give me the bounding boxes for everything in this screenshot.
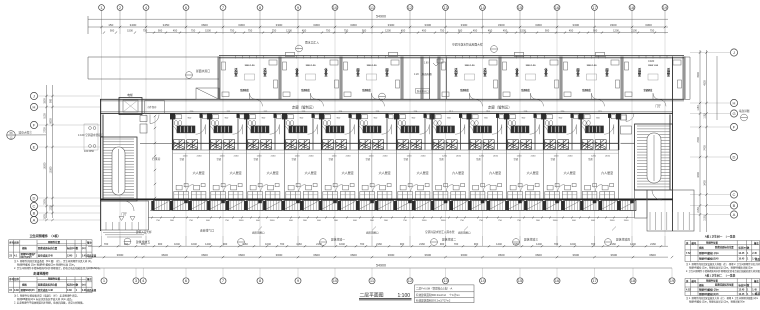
dorm unit 4 [285,113,319,149]
svg-text:750: 750 [143,29,148,33]
svg-text:距完成面 0.38: 距完成面 0.38 [38,288,54,292]
svg-text:A栋 | 卫生间二 | 一览表: A栋 | 卫生间二 | 一览表 [705,273,736,277]
svg-text:2160: 2160 [421,155,427,157]
svg-text:小件寄存: 小件寄存 [147,105,157,109]
svg-text:六人居室: 六人居室 [379,170,391,175]
svg-text:有效建筑面积593.2m2/727m2: 有效建筑面积593.2m2/727m2 [416,299,451,303]
svg-text:雨水口汇入: 雨水口汇入 [305,41,319,45]
store room beside elevator [145,101,165,114]
svg-text:19: 19 [663,5,668,10]
dorm unit 2 [210,113,244,149]
svg-text:3600: 3600 [649,253,656,257]
svg-text:行李房: 行李房 [152,157,161,161]
detail callout 屋面水落口 [186,72,193,79]
svg-text:3300: 3300 [313,23,320,27]
svg-text:二层平面图: 二层平面图 [360,292,384,298]
bottom dimension lines [88,246,672,268]
svg-text:走廊（管制区）: 走廊（管制区） [488,105,512,110]
svg-text:450: 450 [401,29,406,33]
svg-text:3300 1:50: 3300 1:50 [465,65,476,67]
svg-text:15300: 15300 [50,166,53,173]
svg-text:1.45: 1.45 [752,293,757,296]
svg-text:450: 450 [173,29,178,33]
svg-text:成品支架: 成品支架 [87,254,97,258]
svg-text:1160: 1160 [296,242,302,246]
svg-text:建筑入口大样: 建筑入口大样 [136,230,152,234]
svg-text:休息室: 休息室 [323,67,328,77]
svg-text:1500: 1500 [441,220,447,222]
svg-text:1500: 1500 [553,220,559,222]
svg-text:13: 13 [443,5,448,10]
left low-roof dashed outline [88,56,219,58]
svg-text:450: 450 [569,29,574,33]
svg-text:12: 12 [408,5,413,10]
svg-text:空调冷凝水管汇入雨水管: 空调冷凝水管汇入雨水管 [425,230,455,234]
svg-text:备注: 备注 [86,277,92,281]
svg-text:1500: 1500 [610,220,616,222]
svg-text:15: 15 [518,278,523,283]
svg-text:3400: 3400 [130,23,137,27]
svg-text:12.45: 12.45 [739,252,746,255]
svg-text:3600: 3600 [276,253,283,257]
svg-text:A栋 | 卫生间一 | 一览表: A栋 | 卫生间一 | 一览表 [705,235,736,239]
south wall [100,198,673,200]
svg-text:1150: 1150 [697,105,700,111]
svg-text:750: 750 [191,29,196,33]
left vertical dimension lines [47,85,53,218]
svg-text:900: 900 [50,98,53,103]
svg-text:750: 750 [650,29,655,33]
svg-text:7400: 7400 [704,145,707,151]
svg-text:2160: 2160 [419,242,425,246]
svg-text:J: J [33,94,35,99]
svg-text:标高(m): 标高(m) [66,246,76,250]
left dim rotated numbers [44,98,47,220]
svg-text:15: 15 [518,5,523,10]
detail callout 建筑找坡一 [320,239,327,246]
svg-text:2. 走道预埋件于墙体砌筑同步预埋，验收后隐蔽，详见大样图集: 2. 走道预埋件于墙体砌筑同步预埋，验收后隐蔽，详见大样图集。 [14,300,85,304]
svg-text:D: D [33,196,36,201]
building left outer wall [101,99,104,231]
svg-text:六人居室: 六人居室 [527,170,539,175]
svg-text:1500: 1500 [520,29,526,33]
svg-text:1500: 1500 [422,220,428,222]
svg-text:2.45: 2.45 [752,252,757,255]
svg-text:走廊排气口: 走廊排气口 [200,229,214,233]
svg-text:建筑找坡二: 建筑找坡二 [442,238,456,242]
corridor walls [100,99,684,113]
svg-text:16: 16 [555,278,560,283]
svg-text:2160: 2160 [271,155,277,157]
svg-text:1.45: 1.45 [752,258,757,261]
top dimension lines [88,19,668,32]
svg-text:450: 450 [503,29,508,33]
svg-text:卫生间预埋件 （1栋）: 卫生间预埋件 （1栋） [29,233,60,238]
wall detail callout left margin [7,131,46,140]
svg-text:活动室: 活动室 [453,67,457,77]
svg-text:六人居室: 六人居室 [417,170,429,175]
south unit dividing walls [173,113,619,150]
right dim rotated numbers [697,72,707,221]
detail callout [741,114,748,121]
svg-text:2160: 2160 [197,155,203,157]
svg-text:六人居室: 六人居室 [230,170,242,175]
title note box [415,285,475,303]
svg-text:1500: 1500 [127,29,133,33]
svg-text:10: 10 [333,5,338,10]
west canopy box [196,88,219,99]
svg-text:注 1. 预埋件的固定架设备见（5/1 图）（栏）。卫生间预: 注 1. 预埋件的固定架设备见（5/1 图）（栏）。卫生间预埋件详见大样 (2)… [14,259,93,263]
svg-text:3600: 3600 [238,253,245,257]
svg-text:0.38: 0.38 [14,289,19,292]
svg-text:A: A [33,218,36,223]
svg-text:1200: 1200 [286,29,292,33]
svg-text:1040: 1040 [339,242,345,246]
svg-text:H: H [733,101,736,106]
svg-text:2160: 2160 [531,155,537,157]
svg-text:2700: 2700 [44,127,47,133]
svg-text:450: 450 [488,29,493,33]
corridor north doors [256,99,667,106]
dorm unit 1 [173,113,207,149]
left outside risers [84,124,98,150]
svg-text:3300: 3300 [572,23,579,27]
svg-text:1040: 1040 [570,242,576,246]
dorm unit 5 [322,113,356,149]
svg-text:2160: 2160 [456,155,462,157]
svg-text:900: 900 [110,29,115,33]
svg-text:12: 12 [408,278,413,283]
svg-text:2. 卫生间预埋件于墙体砌筑时同步预埋固定，验收合格后隐蔽处: 2. 卫生间预埋件于墙体砌筑时同步预埋固定，验收合格后隐蔽处理大样于1.5(m)… [14,266,102,270]
svg-text:活动室: 活动室 [666,67,670,77]
svg-text:J: J [733,50,735,55]
svg-text:1.80: 1.80 [424,63,429,65]
detail callout 建筑找坡三 [513,239,520,246]
right roof edge [689,57,691,99]
svg-text:活动室: 活动室 [637,67,641,77]
svg-text:3600: 3600 [388,253,395,257]
svg-text:预埋件位置: 预埋件位置 [48,240,61,244]
svg-text:数: 数 [75,246,79,250]
svg-text:3600: 3600 [313,253,320,257]
svg-text:900: 900 [158,242,163,246]
svg-text:900: 900 [593,29,598,33]
svg-text:3400: 3400 [704,180,707,186]
svg-text:1:100: 1:100 [398,293,411,299]
dorm unit 6 [359,113,393,149]
svg-text:1500: 1500 [239,220,245,222]
north wing room labels [233,65,670,92]
svg-text:7400: 7400 [697,137,700,143]
svg-text:2160: 2160 [316,242,322,246]
svg-text:成品支架: 成品支架 [87,288,97,292]
svg-text:门厅: 门厅 [121,212,127,216]
svg-text:3600: 3600 [350,253,357,257]
dorm unit 7 [397,113,431,149]
building right outer wall [670,57,673,232]
svg-text:16200: 16200 [44,162,47,169]
roof AC platform marks on north wall [286,52,605,56]
detail callout 建筑找坡四 [605,239,612,246]
luggage room next to stair [140,115,173,144]
svg-text:A: A [733,212,736,217]
svg-text:3300: 3300 [388,23,395,27]
svg-text:六人居室: 六人居室 [267,170,279,175]
svg-text:2160: 2160 [650,242,656,246]
svg-text:100 Φ50: 100 Φ50 [84,149,95,153]
svg-text:450: 450 [422,29,427,33]
svg-text:16: 16 [555,5,560,10]
svg-text:3300 1:50: 3300 1:50 [367,65,378,67]
svg-text:1440: 1440 [536,242,542,246]
svg-text:900: 900 [362,29,367,33]
svg-text:3600: 3600 [535,253,542,257]
svg-text:3300: 3300 [645,23,652,27]
svg-text:C: C [33,204,36,209]
svg-text:名称: 名称 [14,240,19,244]
svg-text:墙身大样①: 墙身大样① [19,131,33,135]
svg-text:预埋件位置: 预埋件位置 [48,276,61,280]
svg-text:150: 150 [108,23,113,27]
svg-text:建筑找坡五: 建筑找坡五 [136,240,150,244]
svg-text:名称: 名称 [14,277,19,281]
shaft dark squares at corridor wall [170,113,621,119]
svg-text:1040: 1040 [191,242,197,246]
svg-text:4500: 4500 [697,72,700,78]
svg-text:(m): (m) [82,284,86,287]
svg-text:1040: 1040 [265,242,271,246]
left staircase [101,137,138,201]
svg-text:18: 18 [631,278,636,283]
svg-text:450: 450 [302,29,307,33]
svg-text:遮阳雨棚口: 遮阳雨棚口 [252,231,265,235]
svg-text:3600: 3600 [424,253,431,257]
svg-text:4.52: 4.52 [686,289,691,292]
svg-text:3300 1:50: 3300 1:50 [306,65,317,67]
svg-text:活动室: 活动室 [233,67,237,77]
svg-text:B: B [733,203,736,208]
svg-text:2160: 2160 [383,155,389,157]
svg-text:3600: 3600 [117,253,124,257]
svg-text:备注: 备注 [86,240,92,244]
svg-text:3400: 3400 [697,172,700,178]
svg-text:700: 700 [454,242,459,246]
dorm unit 8 [432,113,466,149]
svg-text:D: D [733,155,736,160]
svg-text:700: 700 [104,242,109,246]
svg-text:休息室: 休息室 [514,67,519,77]
svg-text:13: 13 [443,278,448,283]
svg-text:(m): (m) [82,247,86,250]
dorm unit 12 [581,113,615,149]
svg-text:750: 750 [326,29,331,33]
svg-text:1440: 1440 [205,242,211,246]
svg-text:900: 900 [400,242,405,246]
svg-text:电梯: 电梯 [127,93,133,97]
svg-text:B: B [33,211,36,216]
north wing room divider walls [218,57,685,100]
dorm unit 9 [469,113,503,149]
svg-text:750: 750 [440,29,445,33]
svg-text:900: 900 [545,29,550,33]
svg-text:预埋M6螺栓 (2)m 预埋M8 螺栓(2)m 预埋件标高: 预埋M6螺栓 (2)m 预埋M8 螺栓(2)m 预埋件标高 (2)m。 [17,263,76,267]
svg-text:18: 18 [630,5,635,10]
svg-text:预埋M8螺栓(2)m 标高详见各层平面大样 (2)m 成品。: 预埋M8螺栓(2)m 标高详见各层平面大样 (2)m 成品。 [17,297,74,301]
svg-text:900: 900 [158,29,163,33]
svg-text:750: 750 [272,29,277,33]
svg-text:10: 10 [333,278,338,283]
svg-text:1200: 1200 [613,29,619,33]
detail callout 空调冷凝水管出屋面大样 [491,46,498,53]
svg-text:门厅: 门厅 [655,104,661,108]
north mid gap shaft [430,57,447,100]
svg-text:1160: 1160 [242,242,248,246]
dorm unit 3 [247,113,281,149]
svg-text:二层F+6.0M（管理核心1栋）-A: 二层F+6.0M（管理核心1栋）-A [416,287,453,291]
svg-text:2160: 2160 [309,155,315,157]
svg-text:六人居室: 六人居室 [193,170,205,175]
svg-text:700: 700 [360,242,365,246]
svg-text:12.45: 12.45 [739,289,746,292]
svg-text:1440: 1440 [630,242,636,246]
svg-text:1:20 （屋面雨棚）: 1:20 （屋面雨棚） [414,72,434,76]
dorm unit 10 [507,113,541,149]
svg-text:有效建筑面积590.3m2/m2 个A计1m: 有效建筑面积590.3m2/m2 个A计1m [416,293,460,297]
svg-text:建筑找坡三: 建筑找坡三 [524,238,538,242]
svg-text:2160: 2160 [568,155,574,157]
svg-text:2160: 2160 [346,155,352,157]
svg-text:2160: 2160 [493,155,499,157]
svg-text:建筑找坡一: 建筑找坡一 [331,238,345,242]
left axis circles column [30,92,100,223]
detail callout [379,93,386,100]
svg-text:空调冷凝水管出屋面大样: 空调冷凝水管出屋面大样 [452,43,483,47]
svg-text:2100: 2100 [631,29,637,33]
svg-text:8000: 8000 [50,118,53,124]
right vertical dimension lines [700,50,717,232]
north wall windows mullions [236,55,668,58]
svg-text:活动室: 活动室 [482,67,486,77]
top axis circles row [99,5,668,11]
svg-text:1.45: 1.45 [752,289,757,292]
svg-text:六人居室: 六人居室 [342,170,354,175]
svg-text:走廊（管制区）: 走廊（管制区） [292,105,316,110]
svg-text:C020: C020 [648,59,655,63]
right entrance [635,190,695,231]
svg-text:注 1. 预埋件位置规格详见（墙身1）（栏）.走道预埋件详见: 注 1. 预埋件位置规格详见（墙身1）（栏）.走道预埋件详见。 [14,293,79,297]
dorm unit 11 [544,113,578,149]
svg-text:阅览室: 阅览室 [355,67,359,77]
svg-text:六人居室: 六人居室 [305,170,317,175]
svg-text:数: 数 [75,283,79,287]
svg-text:900: 900 [474,242,479,246]
svg-text:G: G [732,111,735,116]
svg-text:3300 1:50: 3300 1:50 [587,65,598,67]
svg-text:六人居室: 六人居室 [564,170,576,175]
corridor labels [292,105,512,110]
svg-text:450: 450 [473,29,478,33]
svg-text:700: 700 [591,242,596,246]
svg-text:14: 14 [480,5,485,10]
svg-text:3300: 3300 [498,23,505,27]
svg-text:六人居室: 六人居室 [452,170,464,175]
svg-text:休息室: 休息室 [294,67,299,77]
svg-text:遮阳雨棚口: 遮阳雨棚口 [458,231,471,235]
svg-text:3300: 3300 [610,23,617,27]
svg-text:3450: 3450 [163,23,170,27]
svg-text:休息室: 休息室 [543,67,548,77]
svg-text:17: 17 [592,5,597,10]
svg-text:规格: 规格 [21,283,27,287]
svg-text:3600: 3600 [461,253,468,257]
svg-text:3600: 3600 [572,253,579,257]
svg-text:1200: 1200 [50,205,53,211]
svg-text:750: 750 [248,29,253,33]
north wing doors and fixtures [222,60,682,99]
svg-text:六人居室: 六人居室 [601,170,613,175]
svg-text:3600: 3600 [161,253,168,257]
svg-text:2150: 2150 [697,207,700,213]
svg-text:3300: 3300 [350,23,357,27]
svg-text:2300: 2300 [44,199,47,205]
svg-text:遮阳雨棚口: 遮阳雨棚口 [366,231,379,235]
svg-text:10.45: 10.45 [739,258,746,261]
svg-text:3600: 3600 [610,253,617,257]
svg-text:1040: 1040 [174,242,180,246]
svg-text:H: H [33,105,36,110]
svg-text:阅览室: 阅览室 [575,67,579,77]
svg-text:2160: 2160 [234,155,240,157]
svg-text:3300: 3300 [238,23,245,27]
left entrance lobby [101,201,149,230]
right axis circles column [690,49,738,218]
svg-text:阅览室: 阅览室 [384,67,388,77]
detail callout 建筑找坡二 [431,239,438,246]
elevator shaft [119,98,142,115]
svg-text:1500: 1500 [205,29,211,33]
svg-text:规格: 规格 [21,246,27,250]
detail callout 雨水口汇入 [296,45,303,52]
svg-text:5100: 5100 [44,113,47,119]
svg-text:3300: 3300 [424,23,431,27]
svg-text:1500: 1500 [270,220,276,222]
svg-text:C: C [733,192,736,197]
svg-text:3300: 3300 [461,23,468,27]
svg-text:预埋M8(D)45: 预埋M8(D)45 [21,288,36,292]
svg-text:2150: 2150 [704,215,707,221]
svg-text:3300: 3300 [276,23,283,27]
svg-text:阅览室: 阅览室 [604,67,608,77]
svg-text:900: 900 [458,29,463,33]
svg-text:14: 14 [480,278,485,283]
svg-text:0.38: 0.38 [67,289,72,292]
svg-text:1500: 1500 [624,220,630,222]
svg-text:10.45: 10.45 [739,293,746,296]
svg-text:900: 900 [223,242,228,246]
right service nook [621,113,635,143]
svg-text:1500: 1500 [44,214,47,220]
axis grid lines [102,10,666,246]
svg-text:3300 1:50: 3300 1:50 [245,65,256,67]
svg-text:走道预埋件: 走道预埋件 [32,271,49,276]
svg-text:3600: 3600 [201,23,208,27]
svg-text:3600: 3600 [498,253,505,257]
svg-text:2160: 2160 [376,242,382,246]
right staircase [635,124,673,190]
detail callout 走廊排气口 [238,239,245,246]
svg-text:距完成面1245: 距完成面1245 [38,254,54,258]
svg-text:3600: 3600 [201,253,208,257]
